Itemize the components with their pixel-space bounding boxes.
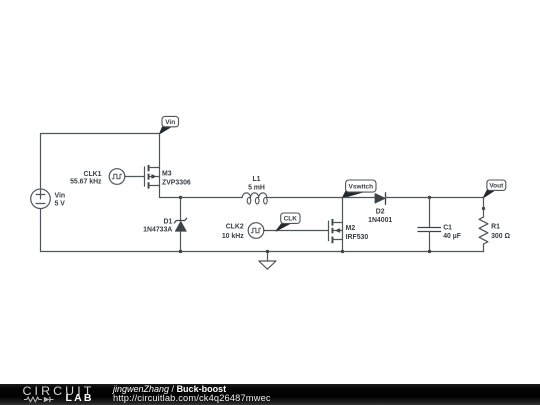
wire bottom ground rail (41, 251, 484, 253)
wire CLK1 to M3 gate (125, 176, 145, 178)
svg-text:D1: D1 (163, 219, 172, 226)
label R1 300 ohm (491, 224, 510, 240)
voltage source V1 Vin 5V (31, 189, 51, 209)
svg-text:M3: M3 (162, 170, 172, 177)
wire D2 to Vout (386, 197, 484, 199)
footer title text (113, 385, 226, 394)
svg-text:5 V: 5 V (55, 200, 66, 207)
logo resistor-diode doodle (24, 396, 65, 403)
clock source CLK2 (248, 223, 264, 239)
wire top from source to Vin node (41, 133, 160, 135)
svg-text:L1: L1 (252, 176, 260, 183)
label Vin 5 V (55, 193, 66, 208)
ground (259, 252, 276, 270)
svg-text:Vout: Vout (489, 183, 504, 190)
label M3 ZVP3306 (162, 170, 191, 186)
footer bar (0, 384, 540, 405)
svg-text:M2: M2 (346, 225, 356, 232)
wire CLK2 to M2 gate (264, 230, 329, 232)
svg-text:Vin: Vin (165, 119, 175, 126)
wire M2 drain up to Vswitch node and source down to rail (342, 198, 344, 252)
clock source CLK1 (109, 169, 125, 185)
wire Vin node down through M3 right side to mid rail (159, 134, 161, 198)
node junction C1 top (428, 196, 431, 199)
wire L1 to Vswitch node (272, 197, 343, 199)
node junction D1 bottom (179, 250, 182, 253)
svg-text:CLK1: CLK1 (84, 171, 102, 178)
svg-text:300 Ω: 300 Ω (491, 233, 510, 240)
wire left vertical lower (40, 209, 42, 252)
node junction M2 source (341, 250, 344, 253)
node junction C1 bottom (428, 250, 431, 253)
svg-text:R1: R1 (491, 224, 500, 231)
resistor R1 300ohm (479, 198, 488, 252)
node junction ground (266, 250, 269, 253)
label M2 IRF530 (346, 225, 369, 241)
svg-text:Vin: Vin (55, 193, 66, 200)
label L1 5 mH (248, 176, 265, 191)
svg-text:CLK2: CLK2 (226, 224, 244, 231)
label CLK1 55.67 kHz (70, 171, 102, 186)
footer url text (113, 394, 271, 403)
node dot Vout (482, 207, 485, 210)
svg-text:D2: D2 (376, 208, 385, 215)
CircuitLab logo wordmark (23, 385, 95, 397)
node flag CLK (276, 213, 300, 231)
transistor M2 IRF530 NMOS (329, 219, 343, 243)
label D1 1N4733A (143, 219, 172, 234)
svg-text:1N4733A: 1N4733A (143, 226, 172, 233)
transistor M3 ZVP3306 PMOS (145, 165, 160, 189)
svg-text:Vswitch: Vswitch (349, 183, 374, 190)
svg-text:55.67 kHz: 55.67 kHz (70, 179, 102, 186)
svg-text:IRF530: IRF530 (346, 234, 369, 241)
svg-text:40 µF: 40 µF (443, 233, 461, 240)
svg-text:5 mH: 5 mH (248, 184, 265, 191)
svg-text:ZVP3306: ZVP3306 (162, 179, 191, 186)
node flag Vout (483, 180, 506, 198)
svg-text:C1: C1 (443, 225, 452, 232)
zener diode D1 1N4733A (174, 218, 186, 231)
capacitor C1 40uF (418, 198, 441, 252)
wire Vswitch to D2 (343, 197, 376, 199)
node junction D1 top (179, 196, 182, 199)
wire left vertical upper (source top) (40, 134, 42, 190)
label D2 1N4001 (368, 208, 392, 223)
wire mid rail to L1 (160, 197, 243, 199)
label CLK2 10 kHz (222, 224, 244, 240)
node flag Vin (160, 116, 179, 133)
svg-text:CLK: CLK (284, 216, 298, 223)
wire D1 top (180, 198, 182, 220)
diode D2 1N4001 (375, 193, 386, 205)
svg-text:10 kHz: 10 kHz (222, 233, 244, 240)
svg-text:1N4001: 1N4001 (368, 217, 392, 224)
wire D1 bottom (180, 231, 182, 251)
inductor L1 5mH (242, 193, 272, 204)
label C1 40 uF (443, 225, 461, 240)
node flag Vswitch (342, 180, 376, 198)
